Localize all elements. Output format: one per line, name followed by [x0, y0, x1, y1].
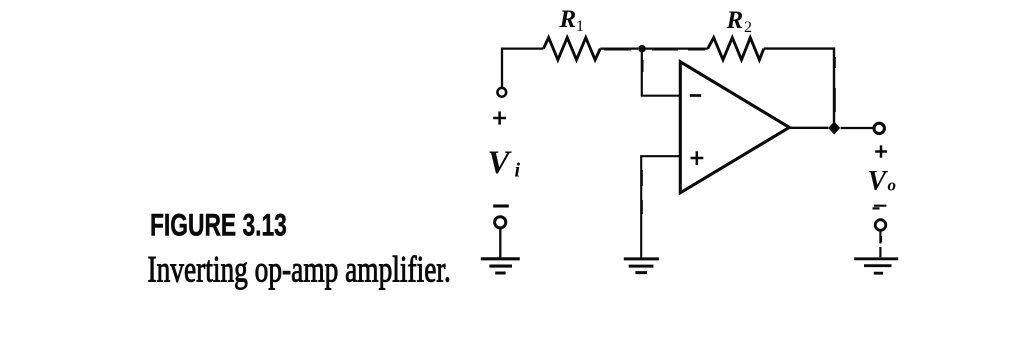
- caption: Inverting op-amp amplifier.: [148, 249, 451, 290]
- terminal Vi+ (open circle): [497, 88, 506, 97]
- wire: node A to R2: [645, 47, 708, 50]
- svg-text:V: V: [488, 145, 513, 181]
- terminal Vo− (open circle): [875, 220, 886, 231]
- caption: FIGURE 3.13: [150, 207, 287, 243]
- label R2: [726, 7, 753, 36]
- svg-text:o: o: [888, 176, 897, 195]
- op-amp U1 inverting input '−' mark: [690, 94, 701, 97]
- svg-text:R: R: [726, 7, 744, 34]
- ground (input source): [481, 259, 520, 273]
- svg-text:R: R: [559, 6, 577, 33]
- svg-text:i: i: [515, 160, 521, 182]
- terminal Vi− (open circle): [495, 217, 506, 228]
- ground (output): [854, 259, 898, 273]
- wire: R1 to node A: [600, 47, 638, 50]
- svg-text:2: 2: [744, 19, 752, 36]
- wire: non-inverting input over and down to ground: [641, 156, 680, 257]
- wire: op-amp output to node B: [789, 127, 828, 129]
- wire: R2 to feedback corner down to node B: [764, 49, 835, 123]
- node B (output junction diamond): [829, 122, 839, 133]
- wire: node B to Vo+ terminal: [841, 127, 874, 129]
- label Vi: [488, 145, 521, 182]
- label '+' at Vi: [493, 112, 506, 125]
- wire: Vi+ terminal stub up to top rail and across to R1: [502, 49, 544, 88]
- label '−' at Vi: [493, 204, 509, 207]
- op-amp U1 (triangle): [680, 62, 789, 193]
- resistor R2: [708, 38, 764, 60]
- ground (non-inverting input): [624, 259, 659, 273]
- terminal Vo+ (open circle): [874, 123, 884, 133]
- label Vo: [868, 166, 897, 197]
- label R1: [559, 6, 585, 35]
- label '−' at Vo: [873, 206, 887, 209]
- svg-text:Inverting op-amp amplifier.: Inverting op-amp amplifier.: [148, 249, 451, 290]
- wire: Vi− terminal to ground: [499, 228, 501, 257]
- wire: Vo− terminal to ground: [879, 231, 882, 258]
- resistor R1: [544, 38, 601, 60]
- op-amp U1 non-inverting input '+' mark: [691, 151, 704, 165]
- node A (junction dot): [638, 45, 646, 53]
- svg-text:V: V: [868, 166, 889, 197]
- svg-text:FIGURE 3.13: FIGURE 3.13: [150, 207, 287, 243]
- svg-text:1: 1: [576, 18, 584, 35]
- wire: node A down and over to inverting input: [642, 52, 680, 96]
- label '+' at Vo: [875, 145, 887, 157]
